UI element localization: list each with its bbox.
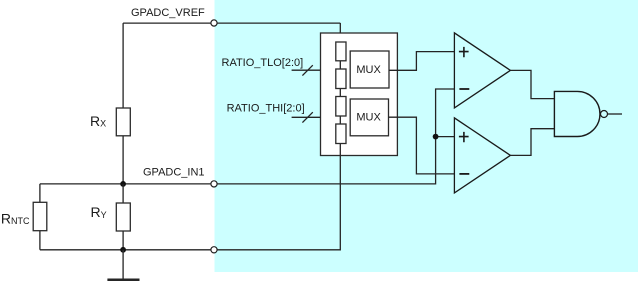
- terminal bottom pin: [211, 247, 217, 253]
- svg-text:RY: RY: [91, 204, 107, 220]
- wire bottom node: RNTC to ladder bottom: [40, 156, 340, 250]
- wire MUX2 output to comparator U2 - input: [389, 117, 455, 174]
- wire GPADC_VREF net: left vertical, top horizontal, down into ladder: [123, 23, 340, 108]
- wire U1 output to NAND top input: [510, 70, 554, 98]
- resistor RNTC: [33, 202, 47, 230]
- svg-text:MUX: MUX: [356, 64, 381, 76]
- terminal GPADC_VREF pin: [211, 20, 217, 26]
- svg-text:GPADC_IN1: GPADC_IN1: [143, 167, 205, 179]
- comparator U2: [454, 118, 510, 193]
- resistor RY: [116, 203, 130, 231]
- resistor RX: [116, 108, 130, 136]
- ground: [122, 250, 124, 280]
- mux MUX1: [350, 51, 389, 88]
- terminal GPADC_IN1 pin: [211, 181, 217, 187]
- divider block (threshold generator): [321, 33, 398, 156]
- bus RATIO_TLO[2:0]: [292, 69, 321, 71]
- nand output bubble: [601, 111, 608, 118]
- mux MUX2: [350, 99, 388, 136]
- ladder resistor 2: [336, 69, 346, 89]
- svg-text:RATIO_THI[2:0]: RATIO_THI[2:0]: [227, 103, 305, 115]
- IC internal region (cyan shading): [215, 0, 638, 272]
- svg-text:RATIO_TLO[2:0]: RATIO_TLO[2:0]: [222, 57, 304, 69]
- svg-text:RNTC: RNTC: [1, 210, 30, 226]
- svg-text:MUX: MUX: [356, 112, 381, 124]
- ladder resistor 3: [336, 97, 346, 117]
- nand gate U3: [554, 91, 600, 136]
- wire RNTC stems: [39, 184, 41, 250]
- ladder resistor 4: [336, 124, 346, 144]
- comparator U1: [454, 33, 510, 108]
- node bottom junction: [120, 247, 126, 253]
- wire U2 output to NAND bottom input: [510, 129, 554, 156]
- wire RX bottom to GPADC_IN1 node: [122, 136, 124, 184]
- node comparator input junction: [433, 134, 439, 140]
- wire NAND output: [608, 113, 623, 115]
- ladder resistor 1: [336, 42, 346, 61]
- wire GPADC_IN1 net: horizontal, up at x=435.6, branches to comparators: [40, 89, 455, 184]
- wire RY stems: [122, 184, 124, 250]
- bus RATIO_THI[2:0]: [292, 116, 321, 118]
- ladder wire segments: [339, 61, 341, 156]
- wire MUX1 output to comparator U1 + input: [389, 52, 454, 71]
- svg-text:RX: RX: [90, 113, 106, 129]
- svg-text:GPADC_VREF: GPADC_VREF: [131, 7, 205, 19]
- node GPADC_IN1 junction at RX/RY: [120, 181, 126, 187]
